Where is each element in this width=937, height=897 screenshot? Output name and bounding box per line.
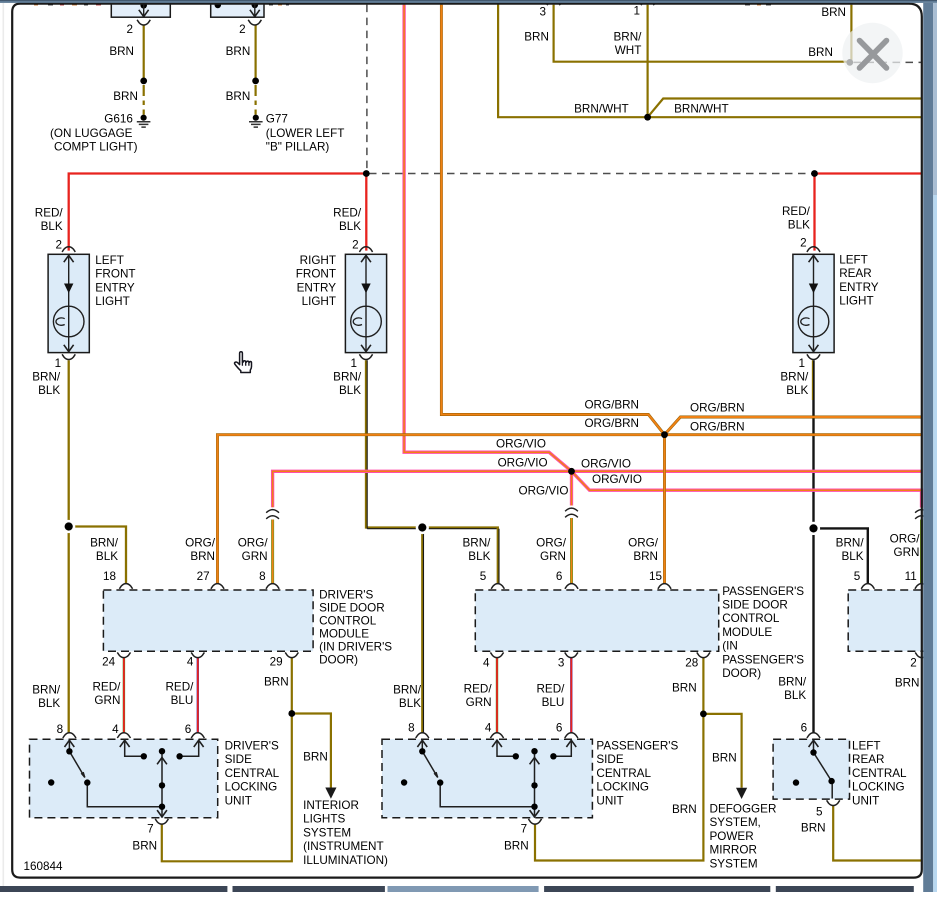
switch 1 internal down arrow (143, 3, 145, 16)
wire BRN switch1 pin2 drop (143, 25, 145, 81)
svg-text:BRN: BRN (264, 676, 289, 689)
svg-text:BLK: BLK (41, 220, 63, 233)
junction dot middle column (416, 521, 429, 534)
wire BRN/WHT upper branch to right border (648, 99, 922, 118)
switch box 2 (cut off at top) (211, 0, 264, 17)
svg-text:1: 1 (798, 357, 805, 370)
svg-text:BRN/: BRN/ (90, 537, 119, 550)
svg-text:LIGHT: LIGHT (839, 295, 873, 308)
wire BRN/BLK drop to left rear locking unit pin 6 (812, 528, 814, 733)
svg-text:BRN: BRN (109, 45, 134, 58)
svg-text:PASSENGER'S: PASSENGER'S (596, 740, 678, 753)
connector pin 5 right module (861, 584, 874, 589)
svg-text:BRN/: BRN/ (780, 371, 809, 384)
svg-text:BRN/: BRN/ (32, 371, 61, 384)
svg-text:BRN: BRN (633, 550, 658, 563)
svg-text:RED/: RED/ (782, 205, 811, 218)
cut-off text specks at top (34, 4, 771, 6)
svg-text:BRN: BRN (504, 840, 529, 853)
svg-text:RED/: RED/ (165, 681, 194, 694)
svg-text:CONTROL: CONTROL (319, 615, 377, 628)
wire BRN/BLK right front light to passenger module pin 5 (366, 360, 499, 583)
junction dot BRN pin29 net (288, 710, 295, 717)
svg-text:BLK: BLK (468, 550, 490, 563)
svg-text:BRN: BRN (303, 751, 328, 764)
wire BRN branch to defogger arrow (703, 714, 741, 788)
connector pin 6 passenger module (565, 584, 578, 589)
connector pin 24 driver module (117, 652, 130, 657)
svg-text:(INSTRUMENT: (INSTRUMENT (303, 840, 384, 853)
svg-text:LEFT: LEFT (839, 254, 868, 267)
wire BRN passenger module pin 28 ground net (535, 658, 703, 861)
junction dot above G77 (252, 78, 259, 85)
svg-text:(IN DRIVER'S: (IN DRIVER'S (319, 641, 392, 654)
svg-text:MODULE: MODULE (722, 626, 772, 639)
inline connector at right border (915, 510, 928, 519)
connector pin 4 passenger module (490, 652, 503, 657)
svg-text:REAR: REAR (839, 267, 871, 280)
svg-text:ORG/VIO: ORG/VIO (496, 438, 546, 451)
wire RED/BLK feed left segment (69, 174, 367, 251)
arrow to interior lights system (325, 788, 336, 799)
svg-text:BRN: BRN (821, 6, 846, 19)
svg-text:15: 15 (649, 570, 663, 583)
svg-text:SIDE DOOR: SIDE DOOR (319, 602, 385, 615)
svg-text:BRN: BRN (712, 752, 737, 765)
left rear entry light internals (798, 247, 829, 360)
svg-text:BLK: BLK (38, 384, 60, 397)
svg-text:DEFOGGER: DEFOGGER (710, 803, 777, 816)
svg-text:RED/: RED/ (92, 681, 121, 694)
svg-text:REAR: REAR (852, 753, 884, 766)
svg-text:BRN/: BRN/ (462, 537, 491, 550)
4th module box (cut off at right) (848, 590, 929, 651)
svg-text:GRN: GRN (894, 546, 920, 559)
svg-text:BRN: BRN (132, 840, 157, 853)
connector pin 2 of switch 1 (137, 20, 150, 25)
connector pin 15 passenger module (658, 584, 671, 589)
svg-text:ORG/: ORG/ (238, 537, 269, 550)
svg-text:1: 1 (55, 357, 62, 370)
svg-text:BRN: BRN (672, 803, 697, 816)
svg-text:SIDE: SIDE (596, 753, 623, 766)
svg-text:DRIVER'S: DRIVER'S (225, 740, 279, 753)
wire RED/GRN passenger module pin 4 to locking pin 4 (496, 658, 498, 733)
svg-text:ORG/BRN: ORG/BRN (584, 399, 639, 412)
svg-text:BLK: BLK (399, 697, 421, 710)
svg-text:5: 5 (854, 570, 861, 583)
wire dashed gray stub right of close button (854, 61, 922, 63)
wire ORG/GRN to 4th module pin 11 (920, 520, 923, 584)
svg-text:BRN: BRN (672, 682, 697, 695)
svg-text:ORG/BRN: ORG/BRN (584, 417, 639, 430)
svg-text:BLU: BLU (542, 696, 565, 709)
wire dashed gray between red junctions (369, 173, 812, 175)
svg-text:POWER: POWER (710, 830, 754, 843)
left front entry light internals (53, 247, 84, 360)
svg-text:GRN: GRN (540, 550, 566, 563)
switch box 1 (cut off at top) (111, 0, 170, 17)
svg-text:ORG/: ORG/ (536, 537, 567, 550)
wire BRN left rear locking pin 5 to border (833, 806, 921, 861)
svg-text:UNIT: UNIT (852, 794, 879, 807)
svg-text:LEFT: LEFT (95, 254, 124, 267)
svg-text:PASSENGER'S: PASSENGER'S (722, 585, 804, 598)
svg-text:SYSTEM,: SYSTEM, (710, 816, 761, 829)
svg-text:BLK: BLK (842, 550, 864, 563)
wire ORG/BRN upper right branch to border (665, 417, 922, 435)
svg-text:CONTROL: CONTROL (722, 612, 780, 625)
svg-text:6: 6 (185, 723, 192, 736)
svg-text:G77: G77 (266, 112, 288, 125)
wire dashed gray vertical at x 366.9 (366, 5, 368, 170)
svg-text:BLK: BLK (784, 689, 806, 702)
svg-text:BRN/: BRN/ (778, 676, 807, 689)
driver locking unit internal switch (69, 740, 198, 817)
svg-text:2: 2 (239, 23, 246, 36)
svg-text:LOCKING: LOCKING (225, 781, 278, 794)
svg-text:6: 6 (556, 722, 563, 735)
wire BRN switch2 pin2 drop (255, 25, 257, 81)
svg-text:MIRROR: MIRROR (710, 844, 757, 857)
connector pin 18 driver module (119, 584, 132, 589)
svg-text:SIDE: SIDE (225, 753, 252, 766)
svg-text:7: 7 (521, 823, 528, 836)
passenger's side central locking unit box (382, 739, 592, 818)
connector pin 4 passenger locking unit (490, 733, 503, 738)
junction dot BRN near close button (846, 59, 853, 66)
junction dot ORG/VIO (568, 468, 575, 475)
svg-text:BRN/WHT: BRN/WHT (674, 103, 729, 116)
svg-text:3: 3 (539, 6, 546, 19)
svg-text:BLU: BLU (171, 694, 194, 707)
driver's side central locking unit box (30, 739, 218, 818)
svg-text:LOCKING: LOCKING (852, 781, 905, 794)
svg-text:ILLUMINATION): ILLUMINATION) (303, 854, 388, 867)
svg-text:RED/: RED/ (35, 207, 64, 220)
wire BRN vertical at top right (850, 5, 852, 63)
svg-text:LIGHTS: LIGHTS (303, 813, 345, 826)
svg-text:6: 6 (556, 570, 563, 583)
svg-text:4: 4 (112, 723, 119, 736)
left rear central locking unit box (773, 739, 849, 799)
svg-text:ORG/VIO: ORG/VIO (519, 485, 569, 498)
svg-text:1: 1 (350, 357, 357, 370)
wire RED/BLK right segment to border (815, 172, 922, 174)
junction dot ORG/BRN (661, 431, 668, 438)
svg-text:UNIT: UNIT (596, 794, 623, 807)
junction dot BRN/WHT (644, 114, 651, 121)
connector pin 8 driver module (266, 584, 279, 589)
svg-text:8: 8 (57, 723, 64, 736)
connector pin 6 passenger locking unit (565, 733, 578, 738)
connector pin 29 driver module (285, 652, 298, 657)
wire BRN from pin3 to junction near close button (554, 5, 850, 62)
connector pin 6 driver locking unit (191, 733, 204, 738)
wire RED/BLK drop to left rear entry light (813, 174, 815, 251)
wire ORG/BRN horizontal through junction to border and drop to pin 27 (218, 435, 922, 584)
svg-text:RED/: RED/ (333, 207, 362, 220)
svg-text:BLK: BLK (339, 384, 361, 397)
wire RED/GRN driver module pin 24 to locking pin 4 (123, 658, 125, 733)
svg-text:18: 18 (103, 570, 116, 583)
junction dot right column (807, 522, 820, 535)
wire ORG/BRN vertical feed with diagonal into junction (441, 5, 664, 435)
passenger locking unit internal switch (422, 740, 571, 817)
connector pin 1 arc at top (641, 0, 654, 5)
connector pin 2 of switch 2 (248, 20, 261, 25)
svg-text:BRN/: BRN/ (836, 537, 865, 550)
connector pin 3 passenger module (565, 652, 578, 657)
svg-text:BRN: BRN (190, 550, 215, 563)
connector pin 8 passenger locking unit (416, 733, 429, 738)
svg-text:LOCKING: LOCKING (596, 781, 649, 794)
svg-text:ORG/: ORG/ (628, 537, 659, 550)
wire RED/BLU driver module pin 4 to locking pin 6 (197, 658, 199, 733)
switch 1 internal dot (140, 2, 147, 9)
svg-text:BRN: BRN (226, 45, 251, 58)
svg-text:SYSTEM: SYSTEM (710, 857, 758, 870)
svg-text:"B" PILLAR): "B" PILLAR) (266, 140, 330, 153)
svg-text:ORG/BRN: ORG/BRN (690, 402, 745, 415)
wire RED/BLU passenger module pin 3 to locking pin 6 (570, 658, 572, 733)
arrow to defogger system (736, 788, 747, 799)
svg-text:ORG/BRN: ORG/BRN (690, 421, 745, 434)
junction dot red/dashed left (363, 170, 370, 177)
svg-text:7: 7 (147, 823, 154, 836)
svg-text:DRIVER'S: DRIVER'S (319, 589, 373, 602)
wire ORG/BRN drop from junction to passenger module pin 15 (663, 435, 666, 584)
wire BRN dashed to G616 (143, 85, 145, 115)
svg-text:FRONT: FRONT (95, 268, 135, 281)
svg-text:UNIT: UNIT (225, 794, 252, 807)
svg-text:8: 8 (259, 570, 266, 583)
connector pin 27 driver module (211, 584, 224, 589)
svg-text:2: 2 (910, 657, 917, 670)
junction dot BRN pin28 net (700, 711, 707, 718)
svg-text:SIDE DOOR: SIDE DOOR (722, 599, 788, 612)
svg-text:(ON LUGGAGE: (ON LUGGAGE (50, 127, 133, 140)
connector pin 7 passenger locking unit (528, 819, 541, 824)
svg-text:(LOWER LEFT: (LOWER LEFT (266, 127, 345, 140)
svg-text:5: 5 (480, 570, 487, 583)
junction dot red/dashed right (811, 170, 818, 177)
svg-text:ORG/VIO: ORG/VIO (498, 457, 548, 470)
svg-text:27: 27 (197, 570, 210, 583)
junction dot left column (62, 520, 75, 533)
wire BRN/WHT main run to right border (498, 4, 921, 118)
inline connector at passenger column (565, 508, 578, 517)
svg-text:160844: 160844 (24, 860, 64, 873)
svg-text:BRN: BRN (895, 677, 920, 690)
wire ORG/GRN to passenger module pin 6 (570, 518, 573, 583)
svg-text:BRN/WHT: BRN/WHT (574, 103, 629, 116)
svg-text:CENTRAL: CENTRAL (596, 767, 651, 780)
svg-text:LIGHT: LIGHT (302, 295, 336, 308)
svg-text:BRN: BRN (801, 822, 826, 835)
svg-text:BRN/: BRN/ (613, 31, 642, 44)
svg-text:2: 2 (800, 237, 807, 250)
svg-text:28: 28 (685, 657, 698, 670)
connector pin 6 left rear locking unit (807, 733, 820, 738)
svg-text:COMPT LIGHT): COMPT LIGHT) (54, 140, 138, 153)
connector pin 2 right module (915, 652, 928, 657)
svg-text:8: 8 (408, 722, 415, 735)
svg-text:1: 1 (633, 5, 640, 18)
svg-text:ENTRY: ENTRY (839, 281, 879, 294)
connector pin 3 arc at top (547, 0, 560, 5)
svg-text:LEFT: LEFT (852, 740, 881, 753)
passenger's side door control module box (475, 590, 718, 651)
switch 2 internal dots (252, 2, 259, 9)
svg-text:BRN: BRN (113, 90, 138, 103)
svg-text:G616: G616 (104, 112, 133, 125)
svg-text:BRN: BRN (808, 46, 833, 59)
svg-text:2: 2 (126, 23, 133, 36)
svg-text:FRONT: FRONT (296, 268, 336, 281)
svg-text:4: 4 (485, 722, 492, 735)
svg-text:6: 6 (801, 722, 808, 735)
ground G616 (137, 115, 151, 128)
svg-text:SYSTEM: SYSTEM (303, 826, 351, 839)
svg-text:ORG/: ORG/ (890, 533, 921, 546)
bottom panel bars (0, 886, 227, 892)
junction dot above G616 (140, 78, 147, 85)
connector pin 5 left rear locking unit (827, 800, 840, 805)
wire ORG/VIO horizontal through splice to border (273, 471, 922, 507)
svg-text:RED/: RED/ (464, 683, 493, 696)
driver's side door control module box (103, 590, 313, 651)
svg-text:ORG/: ORG/ (185, 537, 216, 550)
switch 2 internal down arrow (254, 3, 256, 16)
wire BRN/WHT from pin1 down to junction (646, 5, 648, 118)
svg-text:ORG/VIO: ORG/VIO (581, 458, 631, 471)
svg-text:5: 5 (816, 806, 823, 819)
svg-text:4: 4 (187, 656, 194, 669)
svg-text:WHT: WHT (615, 44, 642, 57)
wire BRN driver module pin 29 ground net (162, 658, 292, 862)
connector pin 28 passenger module (697, 652, 710, 657)
wire ORG/GRN to driver module pin 8 (271, 520, 274, 584)
right front entry light internals (351, 247, 382, 360)
left rear locking unit internal switch (814, 740, 833, 798)
svg-text:DOOR): DOOR) (722, 667, 761, 680)
svg-text:BRN: BRN (226, 90, 251, 103)
svg-text:BRN/: BRN/ (333, 371, 362, 384)
wire BRN/BLK left column to locking unit pin 8 (68, 527, 70, 734)
inline connector ORG/VIO to ORG/GRN at driver column (266, 510, 279, 519)
wire BRN branch to interior lights arrow (292, 714, 331, 788)
svg-text:4: 4 (483, 657, 490, 670)
svg-text:2: 2 (55, 239, 62, 252)
svg-text:BLK: BLK (339, 220, 361, 233)
wire ORG/VIO lower branch to border (572, 471, 922, 507)
svg-text:CENTRAL: CENTRAL (852, 767, 907, 780)
connector pin 5 passenger module (491, 584, 504, 589)
svg-text:ORG/VIO: ORG/VIO (592, 473, 642, 486)
wire ORG/VIO vertical feed and jog to splice dot (404, 5, 571, 472)
svg-text:(IN: (IN (722, 640, 738, 653)
svg-text:GRN: GRN (466, 696, 492, 709)
svg-text:GRN: GRN (94, 694, 120, 707)
wire BRN/BLK drop to passenger locking unit pin 8 (422, 528, 423, 734)
connector pin 7 driver locking unit (155, 819, 168, 824)
wire ORG/VIO drop from splice dot to inline connector (570, 471, 573, 505)
wire BRN dashed to G77 (255, 85, 257, 115)
svg-text:PASSENGER'S: PASSENGER'S (722, 653, 804, 666)
svg-text:BLK: BLK (96, 550, 118, 563)
left front entry light box (48, 254, 89, 352)
svg-text:RED/: RED/ (536, 683, 565, 696)
connector pin 11 right module (915, 584, 928, 589)
svg-text:ENTRY: ENTRY (297, 281, 337, 294)
svg-text:INTERIOR: INTERIOR (303, 799, 359, 812)
mouse cursor (235, 352, 252, 373)
svg-text:RIGHT: RIGHT (300, 254, 336, 267)
svg-text:3: 3 (558, 657, 565, 670)
close (X) button overlay (842, 23, 902, 83)
top window bar (0, 0, 937, 3)
left rear entry light box (793, 254, 834, 352)
svg-text:BRN: BRN (524, 31, 549, 44)
svg-text:BLK: BLK (38, 697, 60, 710)
svg-text:MODULE: MODULE (319, 628, 369, 641)
ground G77 (249, 115, 263, 128)
svg-text:11: 11 (905, 570, 917, 583)
svg-text:BLK: BLK (786, 384, 808, 397)
svg-text:BLK: BLK (788, 219, 810, 232)
svg-text:CENTRAL: CENTRAL (225, 767, 280, 780)
svg-text:29: 29 (270, 656, 283, 669)
wire BRN/BLK left front light to driver module pin 18 (69, 360, 126, 583)
svg-text:ENTRY: ENTRY (95, 281, 135, 294)
wire BRN/BLK left rear light to 4th module pin 5 (812, 360, 867, 583)
connector pin 4 driver module (191, 652, 204, 657)
svg-text:BRN/: BRN/ (393, 684, 422, 697)
connector pin 8 driver locking unit (63, 733, 76, 738)
right front entry light box (345, 254, 386, 352)
svg-text:GRN: GRN (242, 550, 268, 563)
svg-text:24: 24 (102, 656, 116, 669)
svg-text:LIGHT: LIGHT (95, 295, 129, 308)
wire RED/BLK drop to right front entry light (365, 174, 367, 251)
svg-text:DOOR): DOOR) (319, 654, 358, 667)
connector pin 4 driver locking unit (117, 733, 130, 738)
svg-text:BRN/: BRN/ (32, 684, 61, 697)
svg-text:2: 2 (352, 239, 359, 252)
